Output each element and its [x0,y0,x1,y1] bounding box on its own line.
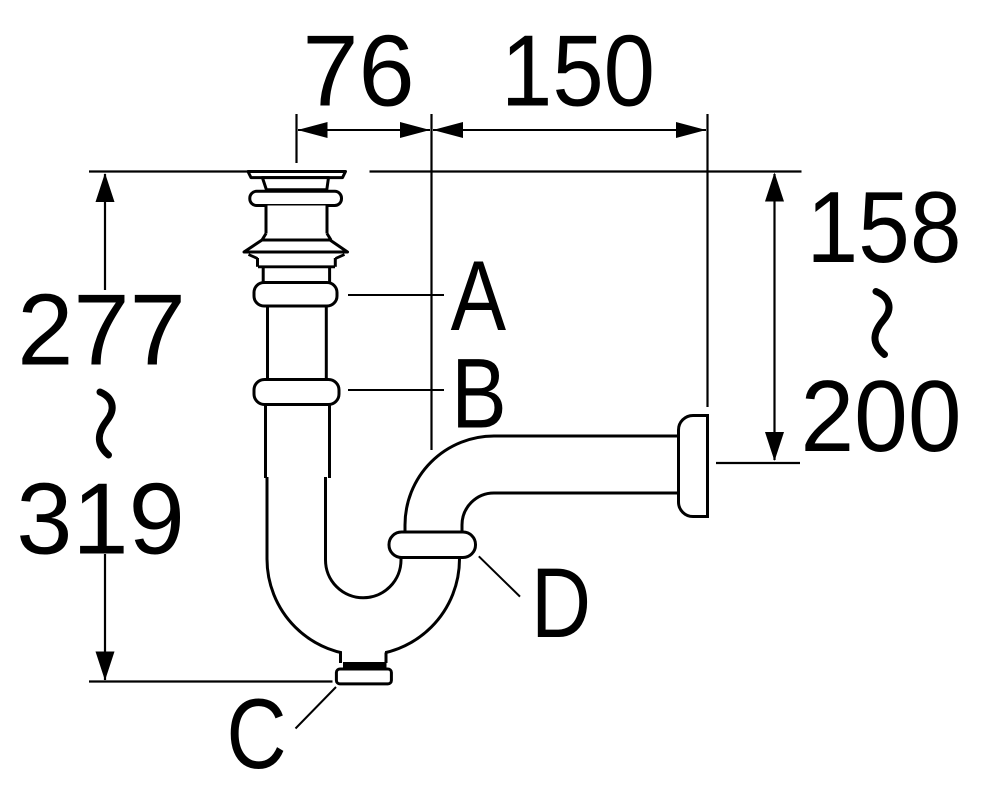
svg-text:76: 76 [302,16,414,128]
right dimension line [773,174,775,460]
slip nut D [389,532,476,558]
arrow left dim up [96,173,115,202]
extension line left of 76 [295,114,297,163]
elbow outer outline [405,436,679,532]
tailpiece body right line [326,206,329,234]
svg-text:B: B [451,339,506,449]
cleanout neck fill [342,645,385,662]
tailpiece collar ring [250,191,342,205]
tube below B right line [328,403,331,478]
svg-text:200: 200 [801,361,962,473]
tailpiece lip neck [262,178,328,190]
pointer line D [479,556,520,596]
arrow 150 right [676,122,706,138]
tailpiece body fill [268,206,326,234]
skirt chamfer left [249,255,258,259]
top reference line left [89,170,250,172]
U-bend inner outline [326,476,402,598]
tailpiece ring right line [334,258,337,267]
tailpiece flare right [327,234,331,241]
pointer line A [348,294,444,296]
svg-text:158: 158 [807,172,962,284]
extension line between 76 and 150 [430,114,432,450]
pipe section A-B left line [266,305,269,380]
tailpiece flare left [262,234,266,241]
svg-text:277: 277 [17,275,186,387]
wall flange [679,416,708,517]
pipe section A-B right line [325,305,328,380]
tailpiece body left line [265,206,268,234]
cleanout neck right line [385,653,388,664]
slip ring A [254,283,337,307]
tailpiece skirt cone [244,240,348,252]
arrow 76 right [400,122,430,138]
tube below B fill [267,405,328,478]
arrow right dim down [765,432,784,461]
tailpiece band right line [328,267,331,283]
svg-text:150: 150 [501,16,655,128]
extension line right of 150 [706,114,708,407]
left dimension line upper segment [104,174,106,290]
tube below B left line [264,403,267,478]
tailpiece flange lip bar [248,172,346,178]
skirt chamfer right [336,255,345,259]
slip ring B [254,380,339,405]
cleanout gasket band [343,662,387,669]
pipe section A-B fill [269,305,326,380]
pointer line B [348,389,444,391]
arrow 150 left [433,122,463,138]
svg-text:D: D [531,548,591,658]
cleanout cap C [336,669,391,684]
arrow right dim up [765,173,784,202]
cleanout neck left line [339,652,342,663]
tilde right [875,292,889,355]
arrow left dim down [96,652,115,681]
U-bend outer outline [267,476,460,655]
top reference line right [370,170,802,172]
arrow 76 left [298,122,328,138]
tailpiece ring left line [256,258,259,267]
tilde left [99,392,112,455]
left dimension line lower segment [104,554,106,680]
pointer line C [296,687,337,729]
tailpiece ring bottom line [258,265,335,268]
tailpiece band left line [262,267,265,283]
svg-text:C: C [226,679,286,789]
svg-text:A: A [451,241,506,351]
U-bend trap body fill [267,476,460,655]
bottom reference line [89,680,333,682]
dimension line 150 [433,129,706,131]
svg-text:319: 319 [16,464,185,576]
dimension line 76 [298,129,430,131]
right lower reference line [716,462,800,464]
elbow and horizontal pipe fill [405,436,680,532]
elbow inner outline [462,493,679,532]
